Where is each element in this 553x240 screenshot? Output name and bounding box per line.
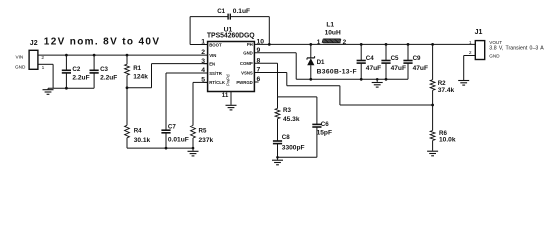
node PH C1 junction	[268, 43, 271, 46]
svg-text:R1: R1	[133, 65, 141, 72]
op-amp U1 box	[207, 26, 255, 91]
svg-text:VIN: VIN	[16, 55, 24, 60]
wire COMP pin8	[254, 63, 277, 97]
wire VIN rail	[38, 54, 208, 56]
node R5 ground	[192, 147, 195, 150]
U1 pin 4 stub	[204, 72, 208, 74]
wire BOOT pin1	[190, 44, 208, 46]
svg-text:3: 3	[201, 58, 205, 65]
U1 pin 9 number	[257, 47, 261, 54]
U1 pin 6 stub	[254, 81, 258, 83]
ground J1	[458, 80, 469, 85]
J1 GND label	[489, 53, 500, 58]
U1 pin name RT/CLK	[209, 80, 226, 85]
svg-text:47uF: 47uF	[366, 65, 381, 72]
U1 pin name EN	[209, 61, 215, 66]
capacitor C6	[312, 97, 332, 157]
capacitor C1	[217, 8, 250, 19]
svg-text:1: 1	[317, 39, 321, 46]
node EN junction	[126, 86, 129, 89]
U1 pin name VSNS	[241, 70, 253, 75]
svg-text:C4: C4	[366, 55, 374, 62]
svg-text:BOOT: BOOT	[209, 42, 222, 47]
svg-text:RT/CLK: RT/CLK	[209, 80, 226, 85]
ground output caps	[372, 79, 383, 87]
resistor R4	[125, 88, 151, 148]
capacitor C2	[62, 55, 90, 88]
svg-text:C1: C1	[217, 8, 225, 15]
J2 pin 1 number	[42, 65, 45, 71]
svg-text:R3: R3	[283, 107, 291, 114]
svg-text:GND: GND	[489, 53, 500, 58]
svg-text:PwPd: PwPd	[226, 74, 231, 86]
inductor L1	[317, 21, 347, 46]
U1 pin 4 number	[201, 67, 205, 74]
node caps ground	[376, 78, 379, 81]
svg-text:10uH: 10uH	[325, 30, 341, 37]
svg-text:GND: GND	[243, 51, 253, 56]
U1 pin name PH	[247, 42, 253, 47]
svg-text:12V nom. 8V to 40V: 12V nom. 8V to 40V	[44, 36, 161, 47]
svg-text:11: 11	[222, 92, 229, 99]
wire EN pin3	[127, 64, 208, 88]
wire COMP network bottom	[278, 156, 317, 158]
wire power ground rail	[296, 78, 408, 80]
wire J1 pin2 to ground	[464, 56, 476, 81]
svg-text:2.2uF: 2.2uF	[100, 75, 117, 82]
svg-text:5: 5	[201, 77, 205, 84]
node C3 top	[93, 54, 96, 57]
title text	[44, 36, 161, 47]
U1 pin name COMP	[240, 61, 253, 66]
resistor R2	[430, 44, 454, 105]
connector J1 box	[475, 29, 485, 59]
svg-text:GND: GND	[15, 65, 26, 70]
wire input ground rail	[48, 87, 94, 89]
resistor R6	[430, 105, 456, 150]
svg-text:2: 2	[343, 39, 347, 46]
U1 pin 3 number	[201, 58, 205, 65]
svg-text:J1: J1	[475, 29, 483, 36]
node D1 top	[309, 43, 312, 46]
J1 pin 1 number	[469, 40, 472, 46]
svg-text:B360B-13-F: B360B-13-F	[317, 68, 357, 75]
svg-text:L1: L1	[326, 21, 334, 28]
svg-text:3300pF: 3300pF	[282, 145, 305, 152]
ground U1 pad	[226, 105, 237, 110]
svg-text:R4: R4	[134, 127, 142, 134]
U1 pin name PWRGD	[236, 80, 252, 85]
U1 pin 3 stub	[204, 63, 208, 65]
svg-text:1: 1	[201, 39, 205, 46]
svg-text:30.1k: 30.1k	[134, 137, 151, 144]
svg-text:1: 1	[469, 40, 472, 46]
wire BOOT loop left	[190, 17, 228, 45]
svg-text:VOUT: VOUT	[489, 40, 502, 45]
U1 pin name SS/TR	[209, 71, 223, 76]
wire J2 pin1 to ground	[38, 64, 53, 88]
ground J2	[43, 88, 54, 94]
node C7 bottom	[165, 147, 168, 150]
wire GND pin9	[254, 53, 296, 80]
U1 pin 2 number	[201, 49, 205, 56]
wire PH rail	[254, 43, 475, 45]
svg-text:10.0k: 10.0k	[439, 137, 456, 144]
svg-text:37.4k: 37.4k	[438, 87, 455, 94]
svg-text:D1: D1	[317, 59, 325, 66]
U1 pin name GND	[243, 51, 253, 56]
svg-text:2.2uF: 2.2uF	[72, 75, 89, 82]
U1 pin 5 number	[201, 77, 205, 84]
node R2 top	[431, 43, 434, 46]
J2 pin 2 number	[41, 55, 44, 61]
capacitor C4	[357, 44, 382, 79]
svg-text:45.3k: 45.3k	[283, 116, 300, 123]
U1 pin 1 stub	[204, 44, 208, 46]
resistor R3	[275, 97, 300, 141]
svg-text:C9: C9	[413, 55, 421, 62]
J2 VIN label	[16, 55, 24, 60]
U1 pin 6 number	[257, 76, 261, 83]
svg-text:PWRGD: PWRGD	[236, 80, 252, 85]
ground COMP network	[272, 157, 283, 165]
svg-text:PH: PH	[247, 42, 253, 47]
svg-text:0.01uF: 0.01uF	[168, 137, 189, 144]
U1 pin name BOOT	[209, 42, 222, 47]
node C5 top	[385, 43, 388, 46]
svg-text:J2: J2	[30, 40, 38, 47]
J1 pin 2 number	[469, 50, 472, 56]
U1 pin 7 number	[257, 67, 261, 74]
node COMP ground	[276, 156, 279, 159]
svg-text:15pF: 15pF	[317, 129, 332, 136]
wire SS/TR pin4	[166, 73, 208, 130]
resistor R5	[191, 126, 214, 149]
svg-text:47uF: 47uF	[391, 65, 406, 72]
wire RT/CLK pin5	[193, 82, 208, 125]
J1 VOUT label	[489, 40, 502, 45]
svg-text:2: 2	[201, 49, 205, 56]
svg-text:COMP: COMP	[240, 61, 253, 66]
capacitor C8	[273, 134, 305, 157]
svg-text:2: 2	[41, 55, 44, 61]
capacitor C7	[161, 123, 188, 148]
U1 pin name VIN	[209, 53, 216, 58]
svg-text:124k: 124k	[133, 73, 148, 80]
U1 pin 11 number	[222, 92, 229, 99]
svg-text:TPS54260DGQ: TPS54260DGQ	[207, 33, 255, 40]
wire COMP network top	[278, 96, 317, 98]
resistor R1	[125, 55, 149, 88]
svg-text:EN: EN	[209, 61, 215, 66]
diode D1	[307, 44, 357, 79]
J2 GND label	[15, 65, 26, 70]
svg-text:4: 4	[201, 67, 205, 74]
J1 rating label	[489, 46, 544, 52]
svg-text:VSNS: VSNS	[241, 70, 253, 75]
svg-text:VIN: VIN	[209, 53, 216, 58]
svg-text:C3: C3	[100, 66, 108, 73]
node C4 top	[360, 43, 363, 46]
node R1 top	[126, 54, 129, 57]
node C5 bottom	[385, 78, 388, 81]
svg-text:47uF: 47uF	[413, 65, 428, 72]
svg-text:1: 1	[42, 65, 45, 71]
svg-text:C5: C5	[391, 55, 399, 62]
capacitor C3	[90, 55, 118, 88]
node C2 top	[65, 54, 68, 57]
U1 pin 5 stub	[204, 81, 208, 83]
U1 pin 1 number	[201, 39, 205, 46]
svg-text:SS/TR: SS/TR	[209, 71, 223, 76]
node D1 bottom	[309, 78, 312, 81]
svg-text:C7: C7	[168, 123, 176, 130]
wire BOOT loop right	[230, 17, 269, 45]
node feedback	[431, 104, 434, 107]
wire VSNS pin7	[254, 73, 432, 106]
node C4 bottom	[360, 78, 363, 81]
svg-text:C8: C8	[282, 134, 290, 141]
svg-text:R5: R5	[199, 127, 207, 134]
node C2 bottom	[65, 87, 68, 90]
svg-text:3.8 V, Transient 0–3 A: 3.8 V, Transient 0–3 A	[489, 46, 544, 52]
svg-text:C6: C6	[321, 121, 329, 128]
node C9 top	[407, 43, 410, 46]
U1 PowerPAD label	[226, 74, 231, 86]
U1 pin 8 number	[257, 58, 261, 65]
svg-text:0.1uF: 0.1uF	[233, 8, 250, 15]
wire pin11 stub	[230, 92, 232, 105]
U1 pin 10 number	[257, 39, 265, 46]
connector J2 box	[29, 40, 38, 70]
ground R6	[427, 150, 438, 155]
capacitor C9	[403, 44, 428, 79]
capacitor C5	[381, 44, 406, 79]
ground R5	[188, 148, 199, 156]
svg-text:237k: 237k	[199, 137, 214, 144]
svg-text:C2: C2	[72, 66, 80, 73]
wire analog ground rail	[127, 147, 193, 149]
